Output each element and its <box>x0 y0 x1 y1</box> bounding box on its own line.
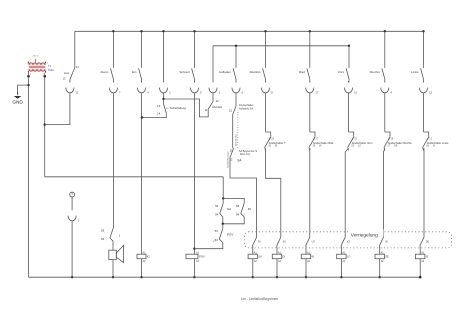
svg-text:Trafo: Trafo <box>48 68 55 72</box>
wire PGV contact to coil junction <box>194 239 222 249</box>
connector X6 Aufladen <box>232 81 244 94</box>
node PGV feed junction <box>193 248 195 250</box>
svg-text:DI: DI <box>283 255 286 259</box>
wire sub-bus drop Vors <box>348 46 350 68</box>
svg-text:SA: SA <box>258 255 262 259</box>
connector X2 Ueberlast <box>209 81 221 94</box>
svg-text:Endschalter Rechts: Endschalter Rechts <box>388 141 412 145</box>
svg-text:Rad: Rad <box>299 70 305 74</box>
contact 53-54 PGV <box>215 224 234 242</box>
node GND tap junction <box>27 84 29 86</box>
node bus holding-circuit <box>162 30 164 32</box>
wire Rechts down to limit switch <box>384 93 386 132</box>
svg-text:12: 12 <box>216 99 220 103</box>
svg-text:12: 12 <box>429 90 432 94</box>
svg-text:53: 53 <box>236 204 240 208</box>
node bus Alarm <box>112 30 114 32</box>
buzzer H1 <box>109 245 124 262</box>
interlock contact + coil SA <box>248 178 262 278</box>
svg-text:SI: SI <box>433 145 436 148</box>
svg-text:DI: DI <box>248 207 251 211</box>
svg-text:17: 17 <box>315 90 318 94</box>
svg-text:Drehschalter: Drehschalter <box>235 134 238 146</box>
limit switch Endschalter Links <box>423 132 449 151</box>
svg-text:Endschalter T: Endschalter T <box>269 141 286 145</box>
wire rail drop to contact chain <box>222 177 224 199</box>
wire trafo left lead down to bottom bus <box>28 73 30 277</box>
svg-text:11: 11 <box>205 108 208 112</box>
svg-text:DE: DE <box>385 255 389 259</box>
switch Vors <box>338 68 349 82</box>
svg-text:13: 13 <box>157 104 161 108</box>
interlock contact + coil W <box>301 148 315 278</box>
svg-text:Vors: Vors <box>338 70 345 74</box>
contact 53-54 SA <box>215 198 231 223</box>
switch Ein <box>132 31 142 82</box>
wire Vors down to limit switch <box>348 93 350 132</box>
contact K2 L. Selbsthaltung 13-14 <box>157 99 186 115</box>
wire holding node to Ueberlast <box>164 99 209 117</box>
limit switch Endschalter Rad <box>309 132 334 151</box>
svg-text:54: 54 <box>236 212 240 216</box>
svg-text:1: 1 <box>27 62 28 64</box>
svg-text:Schnell: Schnell <box>179 70 189 74</box>
wire top supply bus <box>75 30 424 32</box>
switch Alarm <box>100 31 113 82</box>
wire SA chain jog to interlock column <box>230 158 257 179</box>
limit switch Endschalter Rechts <box>384 132 412 151</box>
interlock contact + coil SI <box>416 148 430 278</box>
wire Selbsthaltung to Ein column <box>142 113 166 117</box>
connector X2 T <box>68 209 80 222</box>
limit switch Endschalter Vorn <box>348 132 373 151</box>
svg-text:PGV: PGV <box>199 255 205 259</box>
svg-text:Rechts: Rechts <box>370 70 380 74</box>
wire Ein column down to K2 coil <box>141 93 143 254</box>
svg-text:GND: GND <box>12 99 23 104</box>
transformer T1 Trafo (230V primary) <box>27 56 48 76</box>
svg-text:14: 14 <box>157 111 161 115</box>
svg-text:230 V: 230 V <box>33 56 39 58</box>
wire socket to node <box>163 93 165 99</box>
svg-text:2: 2 <box>30 74 31 76</box>
node bus Abwärts <box>264 30 266 32</box>
wire GND branch <box>18 85 29 93</box>
contact Drehschalter Aufwaerts SA <box>229 93 254 114</box>
svg-text:54: 54 <box>101 237 105 241</box>
svg-text:K2: K2 <box>147 255 151 259</box>
wire buzzer to bottom bus <box>112 260 114 278</box>
svg-text:Alarm: Alarm <box>100 70 109 74</box>
label T1 Trafo <box>48 64 55 72</box>
connector Abwärts X8 <box>261 81 273 94</box>
node chain mid <box>222 223 224 225</box>
wire Alarm column down <box>112 93 114 227</box>
node bus Rad <box>309 30 311 32</box>
node chain top <box>222 197 224 199</box>
switch Aufladen <box>219 68 236 82</box>
wire T column to bottom bus <box>71 221 73 277</box>
svg-text:SA: SA <box>227 207 231 211</box>
contact 53-54 buzzer enable <box>101 228 121 247</box>
switch Abwärts <box>249 31 265 82</box>
interlock contact + coil LO <box>337 152 351 278</box>
svg-text:Lim.- Limitation/Begrenzer: Lim.- Limitation/Begrenzer <box>241 297 279 301</box>
relay coil PGV <box>186 249 205 263</box>
svg-text:Aufwärts SA: Aufwärts SA <box>239 106 253 110</box>
svg-text:Endschalter Rad: Endschalter Rad <box>313 141 333 145</box>
svg-text:54: 54 <box>215 212 219 216</box>
svg-text:DI: DI <box>258 241 261 244</box>
svg-text:3: 3 <box>42 74 43 76</box>
connector X5 Schnell <box>190 81 202 94</box>
connector X4 Ein <box>137 81 149 94</box>
indicator T <box>70 192 75 197</box>
interlock contact + coil DI <box>272 178 286 278</box>
svg-text:DI: DI <box>275 145 278 148</box>
wire sub bus drop Aufladen switch <box>235 46 237 68</box>
svg-text:Wert Lim: Wert Lim <box>240 152 250 156</box>
switch Schnell <box>179 31 194 82</box>
contact SA Begrenzer-S Wert Lim 21-22 <box>229 148 257 163</box>
connector X7 Alarm <box>109 81 121 94</box>
svg-text:LO: LO <box>358 145 361 148</box>
svg-text:LO: LO <box>347 255 350 259</box>
svg-text:Drehschalter: Drehschalter <box>239 103 254 107</box>
connector X2 holding <box>159 81 171 94</box>
svg-text:Endschalter Vorn: Endschalter Vorn <box>352 141 373 145</box>
connector Vors X10 <box>344 81 357 94</box>
wire trafo right lead down <box>44 73 46 177</box>
svg-text:DE: DE <box>426 241 430 244</box>
ground GND <box>12 93 23 105</box>
transformer terminal nodes <box>27 75 46 78</box>
svg-text:10: 10 <box>354 90 357 94</box>
svg-text:53: 53 <box>215 229 219 233</box>
svg-text:Endschalter Links: Endschalter Links <box>427 141 449 145</box>
node Selbsthaltung join <box>141 116 143 118</box>
svg-text:Ein: Ein <box>132 70 137 74</box>
interlock frame Verriegelung <box>245 230 452 248</box>
svg-text:DE: DE <box>394 145 398 148</box>
wire Schnell column down to PGV <box>193 93 195 249</box>
svg-text:SA: SA <box>283 241 287 244</box>
connector Rad X17 <box>306 81 319 94</box>
limit switch Endschalter T <box>265 132 286 151</box>
wire T to connector <box>71 197 73 209</box>
svg-text:53: 53 <box>215 204 219 208</box>
wire rotary link down <box>232 115 234 148</box>
connector X11 Aus <box>66 81 79 94</box>
switch Rad <box>299 31 310 82</box>
wire Abwärts jog to interlock <box>266 148 281 178</box>
mechanical dashed link rotary switch <box>237 112 239 149</box>
node bottom bus end <box>419 276 421 278</box>
svg-text:Links: Links <box>411 70 419 74</box>
svg-text:Überlast: Überlast <box>212 105 222 109</box>
node sub bus to Aufladen <box>235 45 237 47</box>
svg-text:21: 21 <box>230 149 233 153</box>
svg-text:Abwärts: Abwärts <box>249 70 261 74</box>
node bus Rechts <box>384 30 386 32</box>
svg-text:PGV: PGV <box>227 232 233 236</box>
svg-text:Aufladen: Aufladen <box>219 70 231 74</box>
relay coil K2 <box>137 252 151 263</box>
interlock contact + coil DE <box>375 152 389 278</box>
wire Rechts down <box>384 148 385 152</box>
wire return rail y=177.5 <box>45 176 224 178</box>
wire PGV coil to bottom bus <box>193 259 195 278</box>
wire K2 to bottom bus <box>141 259 143 278</box>
switch S1 Aus <box>63 31 80 82</box>
wire Rad down to limit switch <box>309 93 311 132</box>
node Aus-branch junction on right lead <box>44 123 46 125</box>
node bus Ein <box>140 30 142 32</box>
node holding branch <box>162 98 164 100</box>
contact Ueberlast 11-12 <box>205 93 223 112</box>
connector Links X12 <box>419 81 432 94</box>
node sub bus end to Vors <box>348 45 350 47</box>
contact 53-54 DI parallel branch <box>223 198 251 223</box>
svg-text:SI: SI <box>426 255 429 259</box>
svg-text:53: 53 <box>101 229 105 233</box>
svg-text:Verriegelung: Verriegelung <box>351 232 378 238</box>
wire Aus to trafo lead <box>45 93 70 124</box>
switch Links <box>411 31 423 82</box>
node bus Schnell <box>193 30 195 32</box>
wire bus to holding connector <box>163 31 165 81</box>
node bus Links <box>422 30 424 32</box>
wire sub bus drop to Ueberlast connector <box>212 46 214 82</box>
svg-text:Aus: Aus <box>64 71 70 75</box>
wire Abwärts down to limit switch <box>265 93 267 132</box>
switch Rechts <box>370 31 385 82</box>
wire sub bus (interlock feed) <box>213 45 349 47</box>
wire bottom return bus <box>29 276 421 278</box>
wire Vors down <box>345 148 348 152</box>
connector Rechts X4 <box>381 81 393 94</box>
wire Links down to limit switch <box>423 93 425 132</box>
svg-text:L. Selbsthaltung: L. Selbsthaltung <box>167 106 187 110</box>
svg-text:21: 21 <box>229 108 232 112</box>
